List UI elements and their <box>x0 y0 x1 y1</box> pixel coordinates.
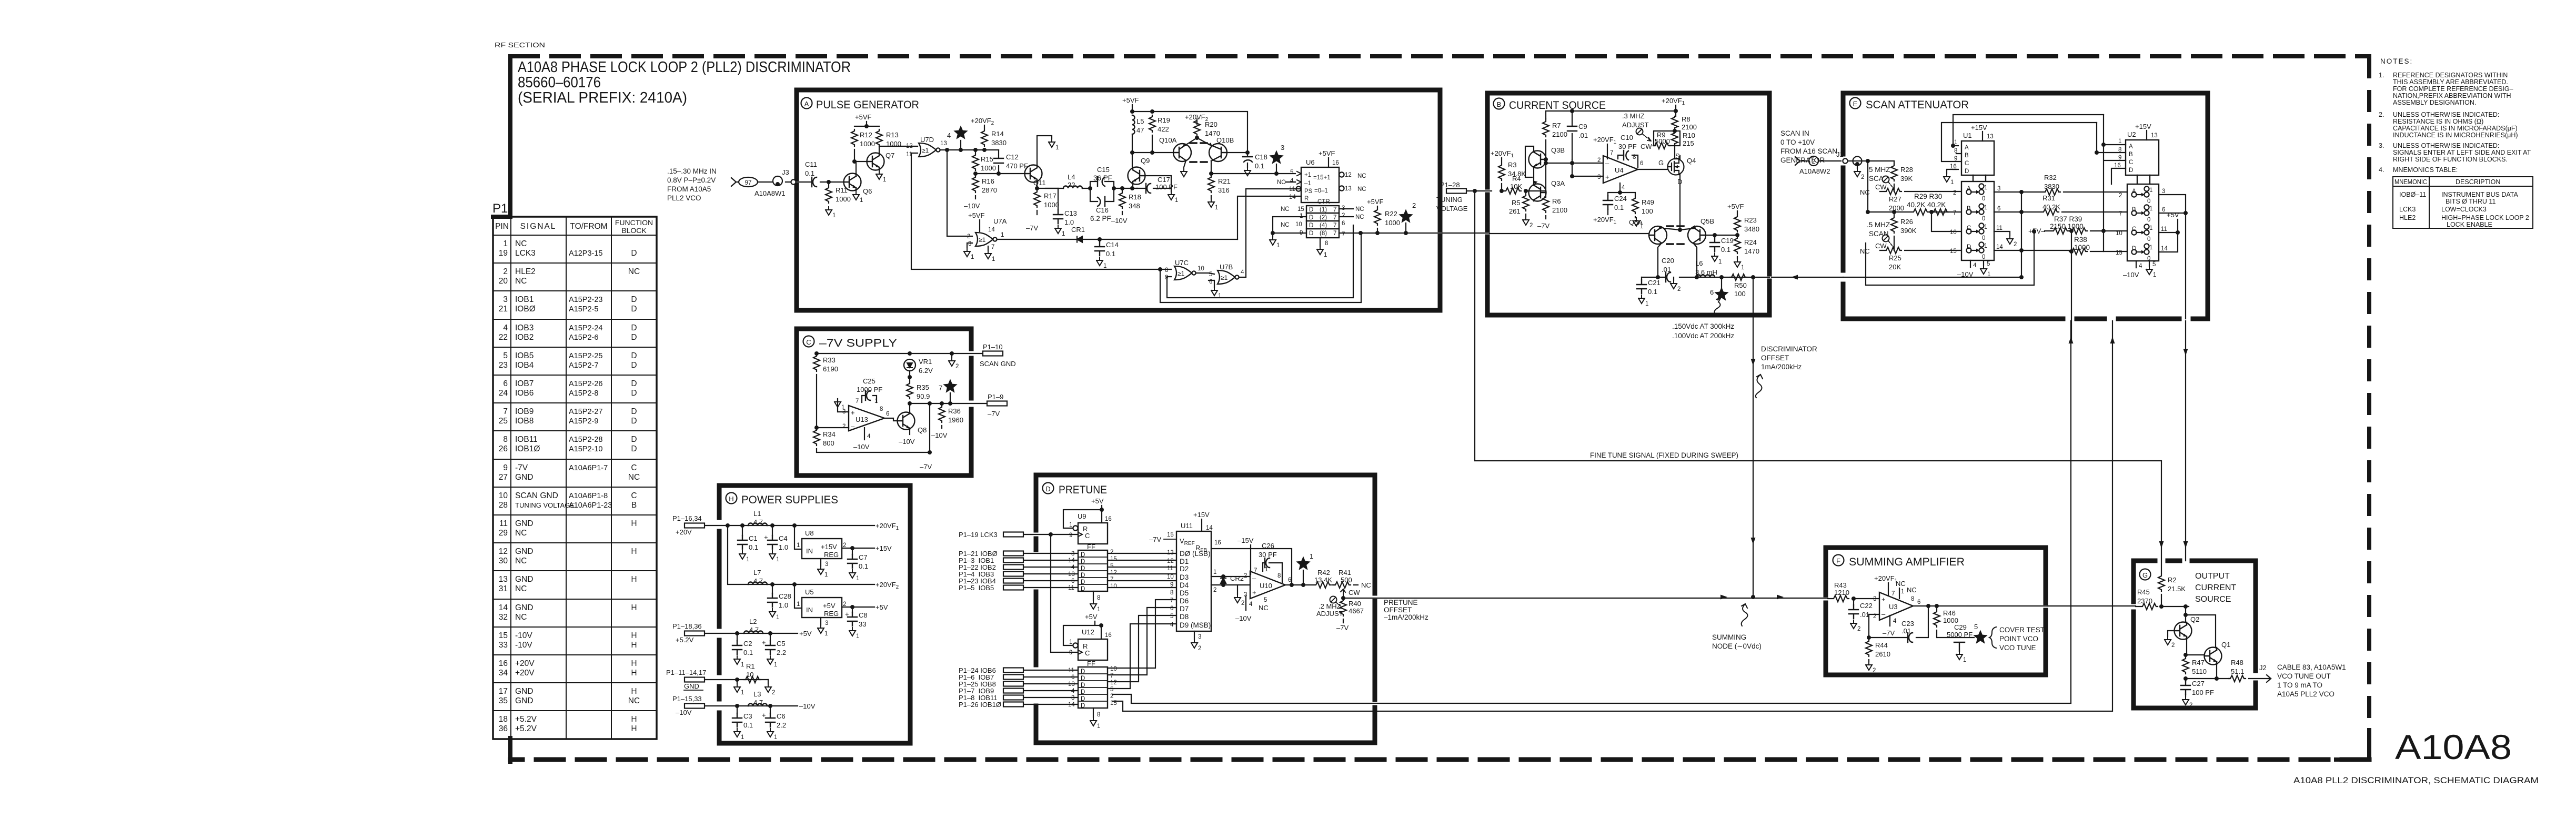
block label E SCAN ATTENUATOR <box>1850 98 1861 109</box>
svg-text:A15P2-23: A15P2-23 <box>569 296 603 304</box>
svg-text:36: 36 <box>499 724 508 733</box>
svg-text:5: 5 <box>1974 623 1978 631</box>
note 1 <box>2379 72 2513 106</box>
svg-text:0: 0 <box>1982 216 1985 222</box>
svg-text:+5V: +5V <box>876 603 888 611</box>
svg-text:+5VF: +5VF <box>1367 198 1383 206</box>
svg-text:16: 16 <box>1105 632 1112 639</box>
svg-text:VOLTAGE: VOLTAGE <box>1436 205 1468 213</box>
svg-text:R2: R2 <box>2168 576 2177 584</box>
svg-text:+15V: +15V <box>1971 124 1987 132</box>
function block D border <box>1036 475 1375 743</box>
svg-text:12: 12 <box>1110 570 1117 576</box>
wire bottom rail from B block <box>1843 192 2021 277</box>
svg-text:6: 6 <box>1170 605 1173 612</box>
svg-text:7: 7 <box>856 398 859 405</box>
svg-text:IOB6: IOB6 <box>515 389 534 398</box>
svg-text:P1–10: P1–10 <box>983 343 1003 351</box>
svg-text:U11: U11 <box>1181 522 1193 530</box>
svg-text:HIGH=PHASE LOCK LOOP 2: HIGH=PHASE LOCK LOOP 2 <box>2441 214 2529 221</box>
svg-text:11: 11 <box>2161 226 2167 232</box>
svg-text:PRETUNE: PRETUNE <box>1384 599 1418 606</box>
svg-text:–1: –1 <box>1304 180 1311 187</box>
svg-text:15: 15 <box>1110 556 1117 562</box>
svg-text:5110: 5110 <box>2192 668 2207 675</box>
capacitor C13 <box>1058 188 1059 210</box>
svg-text:1: 1 <box>2149 245 2152 251</box>
svg-text:1470: 1470 <box>1744 247 1759 255</box>
svg-text:C19: C19 <box>1721 237 1734 245</box>
svg-text:C: C <box>806 338 811 346</box>
svg-text:DESCRIPTION: DESCRIPTION <box>2456 178 2500 186</box>
svg-text:NATION,PREFIX ABBREVIATION WIT: NATION,PREFIX ABBREVIATION WITH <box>2393 92 2511 99</box>
svg-text:R45: R45 <box>2137 588 2150 596</box>
svg-text:A15P2-25: A15P2-25 <box>569 352 603 360</box>
svg-text:INDUCTANCE IS IN MICROHENRIES(: INDUCTANCE IS IN MICROHENRIES(μH) <box>2393 132 2518 139</box>
svg-text:2: 2 <box>1597 157 1601 164</box>
U1 switch row C <box>1966 223 1984 234</box>
svg-text:P1: P1 <box>492 201 508 216</box>
svg-text:1: 1 <box>1984 224 1987 230</box>
svg-text:R38: R38 <box>2074 236 2087 244</box>
transistor Q3A <box>1529 180 1546 201</box>
svg-text:J3: J3 <box>782 168 789 176</box>
capacitor C12 <box>998 150 999 174</box>
svg-text:15: 15 <box>499 631 508 640</box>
svg-text:R40: R40 <box>1349 600 1361 608</box>
svg-text:(SERIAL PREFIX: 2410A): (SERIAL PREFIX: 2410A) <box>518 89 687 106</box>
svg-text:6: 6 <box>886 411 889 417</box>
svg-text:-7V: -7V <box>515 463 528 472</box>
svg-text:C9: C9 <box>1578 123 1587 130</box>
svg-text:L5: L5 <box>1136 117 1144 125</box>
svg-text:R8: R8 <box>1682 115 1690 123</box>
svg-text:.2 MHZ: .2 MHZ <box>1319 602 1341 610</box>
svg-text:8: 8 <box>1170 590 1173 596</box>
resistor R14 <box>981 129 988 146</box>
svg-text:1mA/200kHz: 1mA/200kHz <box>1761 363 1802 371</box>
wire input to J3 <box>731 178 790 186</box>
power -7V under R40 <box>1343 619 1344 623</box>
resistor R47 <box>2182 657 2189 674</box>
svg-text:B: B <box>1965 153 1969 159</box>
svg-text:H: H <box>631 715 637 724</box>
svg-text:2: 2 <box>1213 587 1216 593</box>
svg-text:CR2: CR2 <box>1230 574 1244 582</box>
svg-text:C7: C7 <box>859 553 868 561</box>
wire +5.2V row <box>706 633 798 634</box>
svg-text:P1–16,34: P1–16,34 <box>672 514 702 522</box>
svg-text:COVER TEST: COVER TEST <box>1999 626 2045 634</box>
outer dashed frame bottom <box>510 757 2369 762</box>
pot R27 <box>1880 184 1961 191</box>
ground at C20 <box>1673 277 1674 280</box>
svg-text:10: 10 <box>1110 666 1117 672</box>
block label C -7V SUPPLY <box>803 336 814 347</box>
svg-text:D: D <box>1967 244 1971 250</box>
resistor R46 <box>1936 606 1937 609</box>
svg-text:NC: NC <box>1355 206 1364 213</box>
svg-text:U2: U2 <box>2127 130 2136 138</box>
svg-text:R34: R34 <box>823 430 836 438</box>
svg-text:D: D <box>1045 485 1050 493</box>
svg-text:Q7: Q7 <box>885 151 894 159</box>
svg-text:A15P2-5: A15P2-5 <box>569 305 598 314</box>
svg-text:NC: NC <box>1860 188 1870 196</box>
svg-text:3480: 3480 <box>1744 225 1759 233</box>
svg-text:0: 0 <box>1982 196 1985 202</box>
svg-text:5: 5 <box>1110 686 1113 693</box>
function block B border <box>1487 93 1769 315</box>
label cable 83 <box>2277 663 2346 698</box>
U6 CTR counter box pins <box>1281 199 1364 247</box>
svg-text:D: D <box>1965 168 1969 175</box>
svg-text:18: 18 <box>499 715 508 724</box>
svg-text:R27: R27 <box>1889 195 1901 203</box>
svg-text:3830: 3830 <box>991 139 1007 147</box>
svg-text:H: H <box>631 687 637 696</box>
svg-text:U7B: U7B <box>1220 263 1233 271</box>
svg-text:R4: R4 <box>1512 175 1521 183</box>
svg-text:–10V: –10V <box>964 202 980 210</box>
svg-text:B: B <box>2132 207 2136 213</box>
svg-text:1: 1 <box>2118 138 2121 145</box>
svg-text:=15+1: =15+1 <box>1313 175 1331 181</box>
svg-text:10: 10 <box>1110 583 1117 590</box>
svg-text:8: 8 <box>880 406 883 412</box>
svg-text:OFFSET: OFFSET <box>1384 606 1412 614</box>
inductor L4 <box>1045 188 1090 189</box>
svg-text:20K: 20K <box>1889 263 1901 271</box>
svg-text:1: 1 <box>1213 569 1216 575</box>
svg-text:C29: C29 <box>1954 623 1967 631</box>
resistor R34 <box>813 429 820 446</box>
svg-text:U7D: U7D <box>920 136 934 144</box>
svg-text:CTR: CTR <box>1317 199 1330 205</box>
svg-text:100: 100 <box>1734 290 1746 298</box>
svg-text:UNLESS OTHERWISE INDICATED:: UNLESS OTHERWISE INDICATED: <box>2393 111 2499 118</box>
svg-text:P1–19 LCK3: P1–19 LCK3 <box>959 531 998 539</box>
transistor Q11 <box>1025 165 1042 183</box>
svg-text:GND: GND <box>515 603 533 612</box>
svg-text:R10: R10 <box>1683 132 1695 139</box>
resistor R23 <box>1734 215 1740 232</box>
svg-text:P1–28: P1–28 <box>1440 181 1460 189</box>
svg-text:22: 22 <box>1068 181 1075 189</box>
svg-text:7: 7 <box>1254 568 1257 574</box>
svg-text:GND: GND <box>515 519 533 528</box>
svg-text:+5VF: +5VF <box>1319 149 1335 157</box>
svg-text:D3: D3 <box>1180 573 1189 581</box>
svg-text:A10A6P1-7: A10A6P1-7 <box>569 464 608 472</box>
svg-text:CURRENT SOURCE: CURRENT SOURCE <box>1509 99 1606 112</box>
svg-text:7: 7 <box>1610 150 1613 156</box>
svg-text:IOB5: IOB5 <box>515 351 534 360</box>
svg-text:LCK3: LCK3 <box>515 249 536 258</box>
wire U7A input 2 from star4 node riser <box>947 150 972 236</box>
resistor R48 <box>2229 675 2246 682</box>
svg-text:C18: C18 <box>1255 153 1267 161</box>
svg-text:1.0: 1.0 <box>1064 218 1074 226</box>
svg-text:2: 2 <box>1110 549 1113 555</box>
svg-text:+: + <box>1252 589 1256 597</box>
svg-text:Q4: Q4 <box>1687 157 1696 165</box>
svg-text:0.1: 0.1 <box>743 721 753 729</box>
resistor R19 <box>1149 115 1155 132</box>
svg-text:390K: 390K <box>1900 227 1917 235</box>
function block G border <box>2134 561 2256 708</box>
wires IOB0-IOB5 to U9 <box>1024 553 1078 588</box>
svg-text:PIN: PIN <box>495 222 509 231</box>
matched pair dashed box Q5 <box>1667 226 1688 244</box>
svg-text:12: 12 <box>499 547 508 556</box>
transistor Q10A <box>1173 144 1191 161</box>
svg-text:C16: C16 <box>1096 206 1109 214</box>
svg-text:L3: L3 <box>753 690 761 698</box>
svg-text:U6: U6 <box>1306 158 1315 166</box>
ground under C18 <box>1244 167 1251 176</box>
svg-text:NC: NC <box>1357 186 1366 193</box>
capacitor C4 <box>772 525 773 535</box>
svg-text:R: R <box>1304 196 1309 202</box>
wire second bottom rail <box>1866 231 2034 285</box>
wires U12 outputs up to U11 <box>1108 600 1176 689</box>
svg-text:NODE (∼0Vdc): NODE (∼0Vdc) <box>1712 642 1762 650</box>
svg-text:+: + <box>1605 173 1609 181</box>
svg-text:R33: R33 <box>823 356 836 364</box>
svg-text:5: 5 <box>1170 613 1173 620</box>
svg-text:+15V: +15V <box>1193 511 1210 519</box>
node star4 wire dots <box>973 148 978 152</box>
svg-text:CW: CW <box>1875 183 1887 191</box>
svg-text:R50: R50 <box>1734 281 1747 289</box>
svg-text:0: 0 <box>2147 217 2150 223</box>
svg-text:P1–5 IOB5: P1–5 IOB5 <box>959 584 994 592</box>
connectors P1 IOB0-IOB5 <box>959 550 998 592</box>
ground U7A pin7 <box>988 246 989 250</box>
svg-text:SOURCE: SOURCE <box>2195 595 2231 604</box>
svg-text:5: 5 <box>1110 563 1113 569</box>
transistor Q9 <box>1128 167 1145 185</box>
svg-text:R44: R44 <box>1875 641 1888 649</box>
svg-text:3: 3 <box>1997 186 2000 192</box>
svg-text:1210: 1210 <box>1834 589 1849 597</box>
wire U11 out 1 to U10 <box>1211 577 1250 585</box>
wire +15V out <box>842 548 874 549</box>
gate U7A <box>975 232 997 246</box>
svg-text:1: 1 <box>1069 639 1072 645</box>
svg-text:3: 3 <box>1281 144 1284 151</box>
svg-text:2: 2 <box>842 423 846 430</box>
svg-text:D: D <box>1081 552 1085 558</box>
capacitor C18 <box>1247 153 1248 167</box>
svg-text:1: 1 <box>1901 589 1904 595</box>
svg-text:.01: .01 <box>1578 132 1588 139</box>
svg-text:SCAN IN: SCAN IN <box>1780 129 1809 137</box>
svg-text:34: 34 <box>499 669 508 678</box>
IC U1 switch box <box>1961 181 1994 260</box>
svg-text:2610: 2610 <box>1875 650 1890 658</box>
svg-text:THIS ASSEMBLY ARE ABBREVIATED.: THIS ASSEMBLY ARE ABBREVIATED. <box>2393 78 2508 86</box>
wire U4 + input <box>1572 163 1603 176</box>
IC U2 control box <box>2126 140 2159 175</box>
wire fine tune signal <box>1475 191 2161 573</box>
diode CR2 <box>1221 578 1226 583</box>
svg-text:A12P3-15: A12P3-15 <box>569 249 603 258</box>
transistor Q5A <box>1649 226 1667 244</box>
svg-text:=0–1: =0–1 <box>1314 188 1328 194</box>
wire J1 scan in <box>1795 157 1841 165</box>
svg-text:NC: NC <box>515 557 527 565</box>
svg-text:REFERENCE DESIGNATORS WITHIN: REFERENCE DESIGNATORS WITHIN <box>2393 72 2508 79</box>
function block E border <box>1843 93 2208 319</box>
svg-text:6: 6 <box>1997 206 2000 212</box>
svg-text:9: 9 <box>1170 582 1173 588</box>
U2 switch row B <box>2131 205 2149 215</box>
svg-text:4: 4 <box>1973 262 1977 269</box>
resistor R20 <box>1194 119 1200 136</box>
svg-text:–: – <box>1881 610 1886 618</box>
svg-text:Q2: Q2 <box>2190 615 2199 623</box>
svg-text:NC: NC <box>1355 214 1364 220</box>
svg-text:2100: 2100 <box>1682 123 1697 131</box>
svg-text:316: 316 <box>1218 186 1230 194</box>
svg-text:4: 4 <box>2139 263 2142 269</box>
svg-text:+5V: +5V <box>823 602 836 610</box>
svg-text:R48: R48 <box>2231 659 2243 666</box>
svg-text:C4: C4 <box>779 534 788 542</box>
svg-text:HLE2: HLE2 <box>515 267 536 276</box>
svg-text:0.1: 0.1 <box>749 543 758 551</box>
svg-text:20: 20 <box>499 277 508 286</box>
ground under Q6 emitter <box>853 191 863 204</box>
ground U11 pin3 <box>1194 631 1195 640</box>
ground U9 pin8 <box>1093 591 1094 601</box>
svg-text:L4: L4 <box>1068 173 1075 181</box>
svg-text:C: C <box>1085 532 1090 540</box>
svg-text:16: 16 <box>499 659 508 668</box>
ground on top rail <box>951 353 952 358</box>
svg-text:G: G <box>2142 571 2148 579</box>
svg-text:U9: U9 <box>1078 512 1086 520</box>
svg-text:D: D <box>631 351 637 360</box>
svg-text:16: 16 <box>1214 540 1221 546</box>
svg-text:D: D <box>1081 682 1085 689</box>
svg-text:Q10A: Q10A <box>1159 136 1177 144</box>
capacitor C14 <box>1099 239 1100 242</box>
svg-text:–7V SUPPLY: –7V SUPPLY <box>819 337 897 349</box>
svg-text:U7A: U7A <box>993 217 1007 225</box>
wire R29/R30 junction to row C <box>1931 212 1961 231</box>
svg-text:0: 0 <box>2147 198 2150 205</box>
svg-text:NC: NC <box>1277 179 1286 186</box>
wire U3 output <box>1913 605 2048 606</box>
svg-text:4: 4 <box>1170 622 1174 628</box>
svg-text:H: H <box>631 724 637 733</box>
svg-text:30 PF: 30 PF <box>1618 143 1637 150</box>
resistor R4 <box>1504 188 1521 194</box>
svg-text:12: 12 <box>906 143 913 149</box>
svg-text:D: D <box>631 444 637 453</box>
svg-text:FOR COMPLETE REFERENCE DESIG–: FOR COMPLETE REFERENCE DESIG– <box>2393 85 2513 93</box>
svg-text:Q11: Q11 <box>1033 179 1046 187</box>
svg-text:D: D <box>631 407 637 416</box>
ground under C13 <box>1055 225 1065 237</box>
svg-text:5: 5 <box>1209 271 1212 278</box>
input signal text .15-.30 MHz IN <box>667 167 717 202</box>
wire U2 control bus <box>2097 115 2126 251</box>
svg-text:SCAN GND: SCAN GND <box>515 491 558 500</box>
resistor R6 <box>1545 193 1546 195</box>
svg-text:+15V: +15V <box>876 544 892 552</box>
svg-text:GND: GND <box>515 473 533 482</box>
label SCAN IN J1 <box>1780 129 1837 164</box>
svg-text:4: 4 <box>1893 618 1897 624</box>
svg-text:19: 19 <box>499 249 508 258</box>
svg-text:C6: C6 <box>777 712 786 720</box>
outer frame bottom-right solid corner <box>2336 730 2369 760</box>
wire bottom rail with C20 <box>1642 277 1769 278</box>
svg-text:R24: R24 <box>1744 238 1757 246</box>
svg-text:C25: C25 <box>863 377 876 385</box>
capacitor C3 <box>737 706 738 713</box>
svg-text:2: 2 <box>503 267 508 276</box>
svg-text:A15P2-7: A15P2-7 <box>569 361 598 370</box>
wire C9 to U4 inverting input <box>1546 159 1603 163</box>
wire bottom rail C <box>817 403 930 452</box>
svg-text:14: 14 <box>1996 244 2003 250</box>
svg-text:GND: GND <box>515 547 533 556</box>
svg-text:C10: C10 <box>1621 134 1633 141</box>
pot wiper R41 <box>1341 589 1345 598</box>
svg-text:D: D <box>1309 230 1313 237</box>
svg-text:OUTPUT: OUTPUT <box>2195 572 2230 581</box>
svg-text:B: B <box>2129 151 2133 158</box>
capacitor C17 <box>1136 188 1171 189</box>
svg-text:R42: R42 <box>1317 569 1330 577</box>
svg-text:BITS Ø THRU 11: BITS Ø THRU 11 <box>2446 198 2495 205</box>
svg-text:D: D <box>631 379 637 388</box>
regulator U8 <box>794 525 802 549</box>
counter U6 upper box <box>1301 167 1339 238</box>
transistor Q6 <box>844 174 861 191</box>
svg-text:C23: C23 <box>1901 620 1914 628</box>
svg-text:7: 7 <box>503 407 508 416</box>
wire Q10B emitter to R21 node <box>1211 161 1295 174</box>
svg-text:40.2K: 40.2K <box>2042 203 2060 211</box>
svg-text:+5.2V: +5.2V <box>676 636 694 644</box>
svg-text:D: D <box>631 295 637 304</box>
wire Q3B collector loop to Q3A <box>1525 146 1534 185</box>
svg-text:8: 8 <box>1277 573 1281 579</box>
svg-text:7: 7 <box>1333 230 1336 237</box>
wire U3 feedback with C23 <box>1869 606 1928 638</box>
wire R10 to Q4 source <box>1675 156 1680 159</box>
svg-text:10: 10 <box>1295 221 1302 228</box>
svg-text:4667: 4667 <box>1349 607 1364 615</box>
svg-text:MNEMONIC: MNEMONIC <box>2394 178 2427 186</box>
svg-text:5: 5 <box>1987 261 1990 267</box>
svg-text:5: 5 <box>2152 261 2156 268</box>
wire R37 junction riser to bottom exit <box>2071 251 2072 342</box>
wire U7A input 3 <box>967 243 972 247</box>
svg-text:.01: .01 <box>1662 266 1671 274</box>
svg-text:C: C <box>1965 160 1969 167</box>
svg-text:7: 7 <box>939 384 942 392</box>
test point star 3 <box>1269 150 1283 164</box>
svg-text:R25: R25 <box>1889 254 1901 262</box>
svg-text:R15: R15 <box>981 155 993 163</box>
